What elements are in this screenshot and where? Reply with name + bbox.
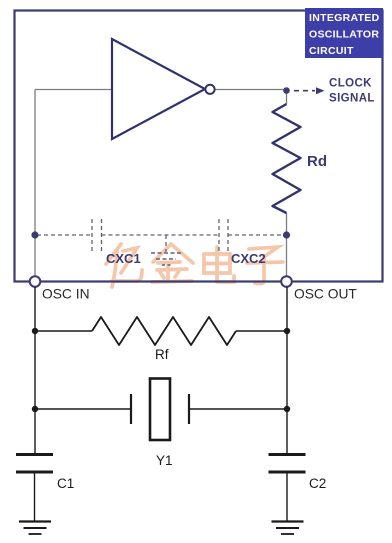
char 4	[249, 247, 278, 256]
node: Rf right junction	[284, 328, 290, 334]
capacitor C1	[16, 455, 74, 522]
char 2	[153, 244, 171, 262]
svg-text:CIRCUIT: CIRCUIT	[309, 45, 354, 57]
capacitor CXC2 (parasitic, dashed)	[219, 219, 266, 266]
char 1	[106, 244, 121, 264]
wire: right rail below OSC OUT	[286, 287, 288, 454]
svg-text:C1: C1	[57, 476, 74, 491]
svg-text:INTEGRATED: INTEGRATED	[309, 12, 380, 24]
node: left dashed junction	[31, 231, 38, 238]
wire: inverter input from left rail	[35, 89, 112, 91]
node: crystal right junction	[284, 406, 290, 412]
node: crystal left junction	[32, 406, 38, 412]
svg-text:Rd: Rd	[307, 153, 327, 170]
watermark	[106, 244, 283, 287]
resistor Rf	[35, 317, 287, 362]
node OSC IN	[30, 276, 90, 301]
title label: INTEGRATED OSCILLATOR CIRCUIT	[305, 8, 383, 58]
svg-text:OSC IN: OSC IN	[42, 287, 90, 302]
svg-text:OSC OUT: OSC OUT	[294, 287, 357, 302]
svg-text:CXC2: CXC2	[231, 251, 266, 266]
svg-text:CXC1: CXC1	[106, 251, 141, 266]
clock signal dashed arrow	[294, 78, 375, 105]
node: right dashed junction	[283, 231, 290, 238]
node OSC OUT	[281, 276, 357, 301]
dashed internal bus wire	[37, 234, 284, 236]
crystal Y1	[35, 379, 287, 469]
wire: inverter output to node	[215, 89, 287, 91]
svg-text:C2: C2	[309, 476, 326, 491]
ground (internal, dashed)	[151, 235, 181, 265]
wire: left rail vertical (OSC IN up to inverter input)	[34, 90, 36, 277]
svg-text:Rf: Rf	[155, 347, 169, 362]
wire: right rail vertical segments around Rd	[286, 90, 288, 277]
node: Rf left junction	[32, 328, 38, 334]
ground (C2)	[272, 522, 304, 535]
IC boundary box	[15, 11, 383, 282]
svg-text:OSCILLATOR: OSCILLATOR	[309, 29, 379, 41]
ground (C1)	[19, 522, 51, 535]
op-amp/inverter U1	[112, 39, 215, 139]
svg-text:SIGNAL: SIGNAL	[329, 93, 375, 105]
svg-text:CLOCK: CLOCK	[329, 78, 372, 90]
svg-text:Y1: Y1	[156, 453, 173, 468]
capacitor CXC1 (parasitic, dashed)	[92, 219, 141, 266]
node: clock tap junction	[283, 87, 290, 94]
resistor Rd	[273, 104, 328, 213]
wire: left rail below OSC IN	[34, 287, 36, 454]
char 3	[215, 247, 219, 280]
capacitor C2	[269, 455, 327, 522]
